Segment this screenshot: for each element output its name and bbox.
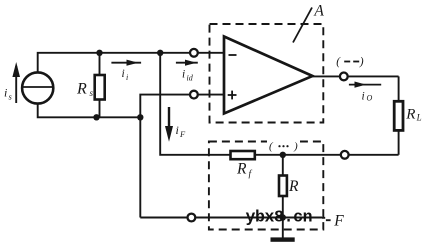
junction dot Rs bottom [93, 114, 99, 120]
wire RL bottom to feedback rail [398, 130, 400, 154]
wire noninverting input net [140, 95, 194, 118]
dashed box A (amplifier) [210, 24, 324, 123]
ground [271, 218, 295, 242]
svg-text:R: R [405, 106, 415, 122]
junction dot ground node [280, 214, 286, 220]
label iid [182, 69, 194, 83]
op-amp plus pin mark [228, 91, 237, 100]
wire inverting stub into A box [198, 52, 224, 54]
svg-text:R: R [76, 81, 87, 98]
junction dot Rs top [96, 50, 102, 56]
svg-text:s: s [90, 88, 94, 98]
label is [4, 86, 13, 102]
wire feedback drop from top rail [160, 53, 398, 155]
junction dot bottom-rail corner [137, 114, 143, 120]
wire bottom rail inside F box [195, 217, 322, 219]
terminal circle feedback output [341, 151, 349, 159]
terminal circle feedback input (bottom) [188, 214, 196, 222]
terminal circle output [340, 73, 348, 81]
arrow ii (input current) [111, 60, 141, 66]
svg-text:R: R [236, 161, 247, 178]
wire output rail [311, 75, 399, 77]
svg-text:i: i [4, 86, 7, 100]
svg-text:id: id [187, 74, 194, 83]
resistor Rs [95, 53, 105, 118]
label ii [122, 68, 129, 82]
svg-text:i: i [362, 91, 365, 103]
label RL [405, 106, 421, 122]
op-amp minus pin mark [229, 54, 237, 56]
label F with leader line [322, 213, 344, 230]
op-amp U1 triangle [224, 37, 313, 114]
arrow iO (output current) [349, 82, 381, 88]
svg-text:F: F [333, 213, 344, 230]
label (--) above output [336, 56, 364, 68]
label iF [176, 123, 187, 139]
svg-text:): ) [359, 56, 364, 68]
wire bottom rail (input section) [38, 104, 141, 118]
label iO [362, 91, 373, 103]
arrow is (source current, up) [12, 62, 20, 103]
svg-text:O: O [367, 94, 373, 103]
svg-text:s: s [9, 92, 13, 102]
junction dot feedback tap on top rail [157, 50, 163, 56]
resistor Rf [231, 151, 255, 159]
resistor RL [394, 101, 403, 130]
wire bottom rail to feedback box [140, 117, 187, 217]
svg-text:ybx8.cn: ybx8.cn [246, 208, 313, 227]
wire right vertical to RL [398, 76, 400, 101]
svg-text:L: L [416, 113, 422, 123]
svg-text:A: A [313, 2, 324, 19]
svg-text:i: i [126, 73, 128, 82]
arrow iid (differential input current) [176, 60, 198, 66]
svg-text:f: f [249, 169, 253, 180]
svg-text:i: i [122, 68, 125, 80]
resistor R [279, 155, 287, 218]
terminal circle noninverting input [190, 91, 198, 99]
dashed box F (feedback network) [209, 142, 323, 230]
wire top rail (inverting input net) [38, 53, 194, 73]
svg-text:i: i [182, 69, 185, 81]
junction dot Rf-R node [280, 152, 286, 158]
terminal circle inverting input [190, 49, 198, 57]
wire noninverting stub into A box [198, 94, 224, 96]
arrow iF (feedback current, down) [165, 107, 173, 142]
svg-text:): ) [293, 140, 298, 152]
label Rs [76, 81, 94, 98]
svg-text:i: i [176, 123, 179, 137]
label (...) on F box top edge [267, 140, 300, 152]
svg-text:(: ( [336, 56, 341, 68]
label Rf [236, 161, 253, 180]
svg-text:F: F [179, 129, 186, 139]
label A with leader slash [293, 2, 324, 42]
svg-text:R: R [288, 178, 299, 195]
current source IS [22, 72, 53, 103]
